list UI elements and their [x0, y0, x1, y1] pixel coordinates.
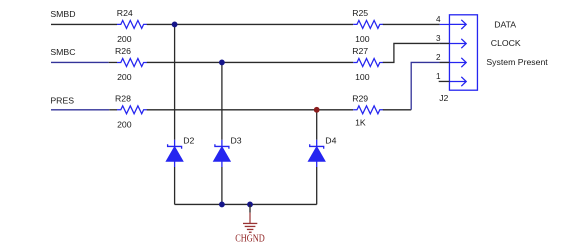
- node rail D3 junction: [219, 202, 225, 208]
- svg-text:DATA: DATA: [494, 20, 516, 30]
- svg-text:J2: J2: [439, 93, 448, 103]
- svg-text:200: 200: [117, 34, 132, 44]
- node SMBC junction: [219, 60, 225, 66]
- wire D4 to rail: [316, 167, 318, 204]
- resistor R26: [115, 46, 147, 82]
- resistor R25: [352, 8, 383, 44]
- svg-text:PRES: PRES: [50, 96, 74, 106]
- wire SMBC left black: [109, 61, 117, 63]
- wire ground rail: [175, 203, 317, 205]
- svg-text:R24: R24: [117, 8, 133, 18]
- resistor R28: [115, 94, 147, 130]
- wire R27 to pin 3: [383, 43, 440, 62]
- node PRES junction: [314, 107, 320, 113]
- wire D3 drop: [221, 62, 223, 139]
- svg-text:100: 100: [355, 34, 370, 44]
- node rail ground junction: [247, 202, 253, 208]
- svg-text:SMBC: SMBC: [50, 47, 75, 57]
- wire PRES left blue: [51, 109, 109, 111]
- wire D3 to rail: [221, 167, 223, 204]
- svg-text:D3: D3: [231, 135, 242, 145]
- ground CHGND: [235, 204, 265, 244]
- svg-text:R25: R25: [352, 8, 368, 18]
- pin 4: [436, 15, 466, 29]
- svg-text:1K: 1K: [355, 118, 366, 128]
- diode D2: [166, 135, 194, 167]
- pin 3: [436, 34, 466, 48]
- wire D2 to rail: [174, 167, 176, 204]
- node SMBD junction: [172, 22, 178, 28]
- wire PRES middle: [147, 109, 353, 111]
- svg-text:CLOCK: CLOCK: [491, 38, 521, 48]
- svg-text:R26: R26: [115, 46, 131, 56]
- svg-text:CHGND: CHGND: [235, 233, 265, 244]
- svg-text:200: 200: [117, 72, 132, 82]
- svg-text:4: 4: [436, 15, 441, 24]
- resistor R27: [352, 46, 383, 82]
- svg-text:System Present: System Present: [486, 57, 548, 67]
- wire to pin 2: [411, 62, 439, 109]
- resistor R29: [352, 93, 383, 127]
- wire R29 right: [383, 109, 411, 111]
- diode D3: [213, 135, 241, 167]
- svg-text:R28: R28: [115, 94, 131, 104]
- svg-text:D2: D2: [183, 135, 194, 145]
- wire D2 drop: [174, 24, 176, 139]
- svg-text:3: 3: [436, 34, 441, 43]
- svg-text:SMBD: SMBD: [50, 9, 75, 19]
- wire SMBD left: [51, 23, 117, 25]
- svg-text:R29: R29: [352, 93, 368, 103]
- svg-text:D4: D4: [325, 135, 336, 145]
- wire D4 drop: [316, 110, 318, 140]
- wire SMBC middle: [147, 61, 353, 63]
- pin 1 stub: [436, 72, 466, 86]
- svg-text:200: 200: [117, 120, 132, 130]
- pin 2: [436, 53, 466, 67]
- svg-text:1: 1: [436, 72, 441, 81]
- wire R25 to pin 4: [383, 23, 440, 25]
- svg-text:2: 2: [436, 53, 441, 62]
- wire SMBC left blue: [51, 61, 109, 63]
- connector J2: [439, 15, 477, 103]
- wire PRES left black: [109, 109, 117, 111]
- wire SMBD middle: [147, 23, 353, 25]
- svg-text:R27: R27: [352, 46, 368, 56]
- resistor R24: [117, 8, 147, 44]
- diode D4: [308, 135, 336, 167]
- svg-text:100: 100: [355, 72, 370, 82]
